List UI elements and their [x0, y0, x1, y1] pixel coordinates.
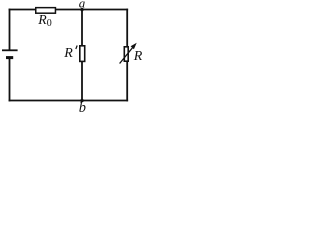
node b (junction dot): [80, 99, 83, 102]
wire middle branch (node a down to node b): [81, 10, 83, 101]
svg-text:R: R: [63, 46, 73, 61]
rheostat R (box on right edge): [124, 47, 128, 61]
rheostat arrow head: [131, 43, 137, 50]
svg-text:b: b: [79, 100, 86, 114]
svg-text:R0: R0: [37, 12, 51, 29]
wire left edge lower (battery down to bottom-left corner): [9, 58, 11, 101]
battery cell: short negative plate: [6, 56, 13, 59]
node a (junction dot): [80, 8, 83, 11]
wire right edge (top-right corner down to bottom-right corner): [126, 9, 128, 102]
resistor R0 (box on top wire): [36, 8, 56, 14]
rheostat arrow shaft: [120, 47, 134, 64]
battery cell: long positive plate: [2, 49, 18, 51]
svg-text:R: R: [133, 49, 143, 64]
wire left edge upper (top-left corner down to battery): [9, 9, 11, 50]
wire top (left corner to node a to top-right corner): [9, 9, 129, 11]
resistor R' (box on middle branch): [80, 46, 85, 62]
svg-text:a: a: [79, 0, 86, 11]
wire bottom (bottom-left corner to node b to bottom-right corner): [9, 100, 129, 102]
prime mark of R': [76, 46, 77, 50]
